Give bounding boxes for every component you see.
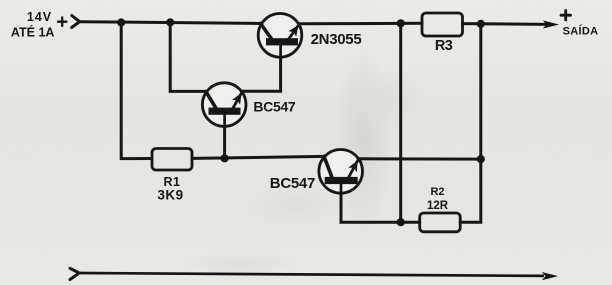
- negative rail left terminal >: [70, 268, 79, 279]
- wire: R1 right to Q3 collector: [192, 156, 324, 158]
- resistor R2: [420, 213, 461, 232]
- svg-text:BC547: BC547: [253, 98, 296, 114]
- svg-text:ATÉ 1A: ATÉ 1A: [11, 24, 55, 39]
- wire: input node down to R1: [121, 23, 152, 159]
- negative rail right arrow: [542, 272, 558, 280]
- svg-text:R3: R3: [435, 38, 453, 54]
- transistor Q3 BC547: [319, 150, 363, 195]
- transistor Q1 2N3055: [258, 14, 302, 58]
- wire: Q2 emitter to Q1 base: [243, 44, 281, 91]
- junction dot: Q3 emitter / output column: [477, 155, 485, 163]
- scan smudges: [333, 45, 393, 235]
- junction dot: output / R3 right: [477, 20, 485, 28]
- wire: top node down to Q2 collector: [170, 22, 205, 91]
- svg-text:3K9: 3K9: [157, 187, 183, 202]
- svg-text:14V: 14V: [27, 10, 52, 24]
- junction dot: input / R1 column: [117, 18, 125, 26]
- svg-text:R2: R2: [430, 186, 444, 198]
- svg-text:SAÍDA: SAÍDA: [563, 25, 599, 38]
- resistor R1: [152, 149, 192, 171]
- wire: Q3 emitter to output column: [358, 157, 481, 160]
- output arrow: [543, 20, 559, 28]
- transistor Q2 BC547: [202, 83, 246, 127]
- input + terminal: [58, 17, 67, 26]
- junction dot: Q2 collector column: [166, 18, 174, 26]
- wire: Q3 base lead down and right to R2 left: [341, 183, 420, 223]
- wire: Q2 base lead: [223, 113, 226, 158]
- wire: Q1 emitter to R3: [299, 22, 423, 26]
- junction dot: Q1 emitter / R3 left: [397, 19, 405, 27]
- svg-text:2N3055: 2N3055: [311, 31, 362, 48]
- output + sign: [561, 11, 571, 20]
- junction dot: Q2 base / R1 right: [221, 154, 229, 162]
- svg-text:12R: 12R: [427, 200, 449, 212]
- negative rail bottom wire: [79, 273, 544, 276]
- wire: output column down to R2 right: [460, 24, 481, 222]
- wire: input to Q1 collector: [80, 22, 262, 24]
- svg-text:BC547: BC547: [270, 175, 315, 192]
- input arrow >: [72, 16, 80, 28]
- junction dot: Q3 base / R2 left: [397, 218, 405, 226]
- wire: Q1 emitter column down (crossover, no dot): [399, 23, 402, 222]
- wire: R3 to output arrow: [462, 22, 546, 26]
- resistor R3: [422, 13, 463, 36]
